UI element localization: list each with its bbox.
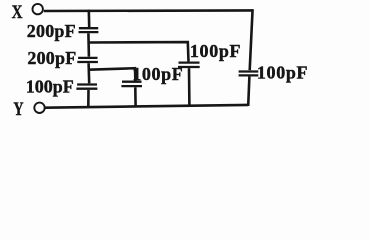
- svg-text:100pF: 100pF: [190, 41, 241, 61]
- svg-text:X: X: [12, 2, 23, 23]
- svg-text:Y: Y: [13, 99, 23, 120]
- svg-text:100pF: 100pF: [257, 62, 308, 82]
- svg-text:100pF: 100pF: [132, 64, 183, 84]
- svg-text:200pF: 200pF: [27, 21, 76, 41]
- svg-text:200pF: 200pF: [27, 48, 76, 68]
- svg-text:100pF: 100pF: [26, 76, 74, 96]
